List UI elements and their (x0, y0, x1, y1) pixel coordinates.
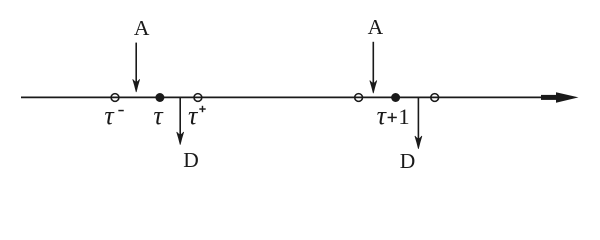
svg-text:A: A (134, 16, 150, 40)
svg-text:τ: τ (377, 101, 388, 130)
svg-text:A: A (368, 15, 384, 39)
svg-text:τ: τ (153, 101, 164, 130)
svg-text:D: D (400, 149, 416, 173)
svg-text:τ: τ (188, 101, 199, 130)
svg-text:1: 1 (398, 104, 409, 129)
svg-text:D: D (183, 148, 199, 172)
svg-text:τ: τ (104, 101, 115, 130)
